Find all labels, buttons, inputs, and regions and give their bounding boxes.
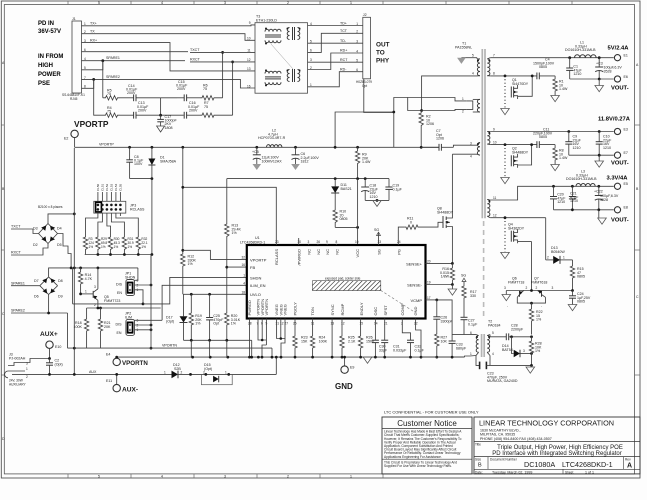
svg-text:24: 24 xyxy=(397,240,401,244)
wire bridge2 top rail xyxy=(49,268,138,277)
T3 winding lower-left xyxy=(265,71,281,84)
wire RXCT to bridge1 xyxy=(11,244,48,256)
svg-text:Title: Title xyxy=(475,442,481,446)
svg-text:RD-: RD- xyxy=(340,67,347,71)
svg-text:+C5: +C5 xyxy=(252,150,259,154)
wire T3.1 to J2.6 xyxy=(308,72,363,87)
capacitor C28 xyxy=(505,333,507,340)
U1 bottom pin labels rotated xyxy=(247,299,418,316)
svg-text:COMP: COMP xyxy=(400,303,405,315)
T3 winding upper-left xyxy=(265,29,281,42)
terminal E8 xyxy=(614,207,620,213)
svg-text:1: 1 xyxy=(462,97,464,101)
svg-text:GND: GND xyxy=(413,307,418,316)
wire T1 pin4 to sense chain xyxy=(452,153,477,155)
wire staircase to T1 primary xyxy=(335,98,422,148)
svg-text:E7: E7 xyxy=(624,151,628,155)
svg-text:-: - xyxy=(507,305,508,309)
inductor L1 xyxy=(575,55,597,58)
svg-text:TXCT: TXCT xyxy=(190,48,200,52)
svg-text:PSE: PSE xyxy=(38,81,50,87)
svg-text:4: 4 xyxy=(243,281,245,285)
resistor R31 xyxy=(122,236,126,255)
svg-text:RXCT: RXCT xyxy=(11,251,22,255)
wire bank bottom rail xyxy=(85,254,152,256)
capacitor C21 xyxy=(571,186,573,196)
svg-text:PJ-002AH: PJ-002AH xyxy=(9,356,26,360)
svg-text:DIS: DIS xyxy=(116,283,123,287)
capacitor C23 xyxy=(479,362,481,370)
wire T3.2 to J2.4 xyxy=(308,53,363,70)
resistor R28 xyxy=(529,337,533,366)
wire VCC vertical xyxy=(357,179,359,245)
capacitor C3 electrolytic xyxy=(598,58,600,67)
resistor R29 xyxy=(96,236,100,255)
svg-text:SG: SG xyxy=(377,249,382,255)
capacitor C26 xyxy=(426,299,437,301)
node C10 xyxy=(598,130,601,133)
ground below SENSE- xyxy=(451,285,453,290)
svg-text:HIGH: HIGH xyxy=(38,63,53,69)
wire bridge1 top to VPORTP vert xyxy=(48,214,74,224)
svg-text:18: 18 xyxy=(241,290,245,294)
svg-text:CL52: CL52 xyxy=(105,183,109,191)
svg-text:IN FROM: IN FROM xyxy=(38,54,63,60)
svg-text:E4: E4 xyxy=(106,353,110,357)
wire SYNC stub xyxy=(331,319,333,358)
svg-text:J2: J2 xyxy=(363,13,367,17)
node x183 on rail xyxy=(181,146,184,149)
svg-text:3: 3 xyxy=(94,285,96,289)
U1AREA xyxy=(117,236,465,391)
wire R12 to VPORTP pin xyxy=(183,250,247,259)
svg-text:1: 1 xyxy=(26,367,28,371)
wire x531 vertical xyxy=(531,242,533,291)
svg-text:SHDN: SHDN xyxy=(250,275,261,280)
svg-text:exposed pad, solder side: exposed pad, solder side xyxy=(325,277,361,281)
svg-text:15K: 15K xyxy=(301,339,308,343)
resistor R25 xyxy=(340,319,344,358)
diode D3 xyxy=(41,225,46,230)
capacitor C11 xyxy=(536,141,538,148)
T3J2 xyxy=(247,13,394,147)
node C6 xyxy=(294,146,297,149)
svg-text:1210: 1210 xyxy=(557,200,565,204)
terminal E9 GND xyxy=(344,357,346,366)
svg-text:19: 19 xyxy=(427,281,431,285)
wire R2 bottom to rail xyxy=(420,128,422,147)
T2AREA xyxy=(449,320,542,384)
svg-text:Applications Engineering For A: Applications Engineering For Assistance. xyxy=(384,455,442,459)
J1 pin net names xyxy=(90,22,97,43)
wire R11 to PG pin xyxy=(398,227,404,245)
svg-text:POWER: POWER xyxy=(38,72,61,78)
svg-text:AUX-: AUX- xyxy=(122,387,138,394)
svg-text:SMAJ58A: SMAJ58A xyxy=(160,159,177,163)
svg-text:1%: 1% xyxy=(101,245,106,249)
svg-text:10: 10 xyxy=(493,141,497,145)
capacitor C19 xyxy=(388,179,390,187)
svg-text:SFST: SFST xyxy=(383,305,388,316)
net stubs CL50-CL55 xyxy=(98,192,121,201)
svg-text:11.8V/0.27A: 11.8V/0.27A xyxy=(598,117,631,123)
capacitor C18 electrolytic xyxy=(364,179,366,187)
U1 right pin labels xyxy=(406,261,423,303)
svg-text:9: 9 xyxy=(493,128,495,132)
svg-text:DO1610H-331MLB: DO1610H-331MLB xyxy=(565,48,596,52)
svg-text:12: 12 xyxy=(493,214,497,218)
svg-text:2: 2 xyxy=(526,286,528,290)
svg-text:ETH1-230LD: ETH1-230LD xyxy=(256,19,277,23)
svg-text:NC: NC xyxy=(325,249,330,255)
J1AREA xyxy=(38,17,97,101)
wire to R13 xyxy=(226,179,228,222)
capacitor C30 xyxy=(374,319,376,341)
T3 internal diagonal xyxy=(271,44,293,69)
svg-text:OUT: OUT xyxy=(376,42,390,49)
svg-text:-: - xyxy=(541,305,542,309)
svg-text:SPARE2: SPARE2 xyxy=(106,75,120,79)
header JP3 RCLASS xyxy=(94,201,126,213)
svg-text:VPORTP: VPORTP xyxy=(99,143,114,147)
svg-text:33pF: 33pF xyxy=(379,348,388,352)
svg-text:1%: 1% xyxy=(141,245,146,249)
capacitor C16 xyxy=(183,112,185,119)
svg-text:SPARE1: SPARE1 xyxy=(11,282,25,286)
capacitor C9 xyxy=(568,132,570,142)
resistor R6 xyxy=(200,96,223,100)
svg-text:VNEG: VNEG xyxy=(283,304,288,315)
svg-text:1.4W: 1.4W xyxy=(559,87,568,91)
svg-text:75: 75 xyxy=(203,87,207,91)
wire GND pin stub xyxy=(416,319,421,358)
T1 primary winding upper xyxy=(477,59,480,76)
svg-text:(Opt): (Opt) xyxy=(204,367,212,371)
wire VPORTN y348 riser xyxy=(271,348,273,357)
U1 left pin numbers xyxy=(241,256,245,295)
svg-text:2: 2 xyxy=(462,110,464,114)
diode D6 xyxy=(43,289,48,294)
wire E2 down xyxy=(74,138,76,148)
svg-text:ILIM_EN: ILIM_EN xyxy=(250,283,266,288)
svg-text:CL51: CL51 xyxy=(101,183,105,191)
capacitor C31 xyxy=(384,319,386,341)
wire RXCT xyxy=(190,61,255,63)
svg-text:0805: 0805 xyxy=(577,275,585,279)
svg-text:1%: 1% xyxy=(89,245,94,249)
svg-text:2: 2 xyxy=(536,286,538,290)
diode D7 xyxy=(42,278,47,283)
wire pin10 node xyxy=(490,144,537,146)
svg-text:1%: 1% xyxy=(535,349,541,353)
T1 primary winding lower xyxy=(477,143,480,156)
svg-text:RJ45: RJ45 xyxy=(70,97,78,101)
svg-text:10K: 10K xyxy=(441,339,448,343)
svg-text:CL55: CL55 xyxy=(119,183,123,191)
svg-text:1: 1 xyxy=(563,256,565,260)
svg-text:1210: 1210 xyxy=(570,199,578,203)
svg-text:ENDLY: ENDLY xyxy=(359,302,364,315)
connector J1 xyxy=(72,21,82,93)
wire bridge2 bottom down xyxy=(48,295,50,314)
svg-text:1%: 1% xyxy=(114,245,119,249)
svg-text:D6: D6 xyxy=(34,295,39,299)
resistor R3 xyxy=(83,236,87,255)
wire TXCT to bridge1 xyxy=(11,229,39,234)
capacitor C2 xyxy=(49,359,51,363)
transistor Q5 xyxy=(92,291,94,298)
svg-text:13: 13 xyxy=(247,67,251,71)
svg-text:4: 4 xyxy=(470,155,472,159)
transformer T3 box xyxy=(255,23,308,94)
svg-text:1206: 1206 xyxy=(436,137,444,141)
bottom ticks xyxy=(68,474,383,478)
main VPORTN/GND rail xyxy=(117,356,465,358)
wire pin8 node xyxy=(490,75,537,77)
wire 3.3V return xyxy=(554,209,614,211)
wire AUX rail riser xyxy=(275,357,277,374)
diode D11 xyxy=(334,179,336,187)
wire pin4 upper primary xyxy=(422,76,477,111)
svg-text:15: 15 xyxy=(360,322,364,326)
svg-text:23: 23 xyxy=(275,240,279,244)
capacitor C1 xyxy=(569,58,571,68)
svg-text:D8: D8 xyxy=(58,279,63,283)
svg-text:UVLO: UVLO xyxy=(250,292,261,297)
svg-text:1.4W: 1.4W xyxy=(362,160,371,164)
svg-text:8: 8 xyxy=(493,72,495,76)
wire node tie y178.6 xyxy=(227,178,389,180)
svg-text:1 of 1: 1 of 1 xyxy=(585,471,594,475)
terminal E1 xyxy=(614,55,620,61)
svg-text:PWRGD: PWRGD xyxy=(247,300,252,315)
svg-text:100K: 100K xyxy=(74,325,83,329)
wire row1 right segment xyxy=(160,98,162,115)
diode D2 xyxy=(41,236,46,241)
svg-text:Sheet: Sheet xyxy=(565,470,573,474)
U1 bottom pin numbers xyxy=(248,322,418,326)
svg-text:TXCT: TXCT xyxy=(11,225,21,229)
terminal E6 xyxy=(614,76,620,82)
svg-text:1%: 1% xyxy=(128,245,133,249)
TITLEBLOCK xyxy=(382,410,640,475)
wire rail to RCLASS pin xyxy=(183,147,276,246)
T3 winding upper-right xyxy=(287,27,300,40)
ground Q6 collector xyxy=(505,291,507,295)
svg-text:RX+: RX+ xyxy=(90,38,97,42)
side ticks xyxy=(2,125,641,375)
svg-text:NC: NC xyxy=(307,249,312,255)
main title block xyxy=(474,417,640,474)
wires VPORTN pins xyxy=(258,319,266,341)
wire D1 bottom down to bank rail xyxy=(151,179,153,255)
svg-text:D5: D5 xyxy=(57,243,62,247)
svg-text:0: 0 xyxy=(410,220,412,224)
svg-text:3: 3 xyxy=(523,349,525,353)
capacitor C33 xyxy=(452,334,464,336)
svg-text:E2: E2 xyxy=(64,137,68,141)
svg-text:Supplied For Use With Linear T: Supplied For Use With Linear Technology … xyxy=(384,464,452,468)
wire VCMP to C33 node xyxy=(437,300,452,335)
wire TXCT xyxy=(190,51,255,53)
svg-text:1: 1 xyxy=(350,475,352,479)
diode D4 xyxy=(50,226,55,231)
resistor R9 xyxy=(355,147,359,167)
svg-text:AUXILIARY: AUXILIARY xyxy=(9,383,26,387)
wire E10 down xyxy=(49,349,51,359)
svg-text:NC: NC xyxy=(334,249,339,255)
wire TX J1.2 to T3.10 xyxy=(82,34,256,41)
rail extension to C27/T2 xyxy=(421,356,465,358)
svg-text:4: 4 xyxy=(161,1,163,5)
terminal E7 xyxy=(614,152,620,158)
ground C17 xyxy=(157,126,165,132)
svg-text:VPORTP: VPORTP xyxy=(250,258,267,263)
resistor R24 xyxy=(310,319,314,358)
resistor R12 xyxy=(181,250,185,294)
T1 core xyxy=(481,49,483,218)
svg-text:LTC4268DKD-1: LTC4268DKD-1 xyxy=(240,241,265,245)
svg-text:4: 4 xyxy=(492,352,494,356)
svg-text:RCLASS: RCLASS xyxy=(130,207,145,211)
svg-text:1%: 1% xyxy=(231,322,237,326)
svg-text:5: 5 xyxy=(98,1,100,5)
svg-text:SENSE-: SENSE- xyxy=(407,283,423,288)
capacitor C4 xyxy=(536,73,538,80)
svg-text:RCLASS: RCLASS xyxy=(274,249,279,265)
svg-text:3528: 3528 xyxy=(604,69,612,73)
svg-text:4: 4 xyxy=(161,475,163,479)
RCLASSAREA xyxy=(83,146,276,294)
wire T3.4 to J2.1 xyxy=(308,25,363,27)
svg-text:20K: 20K xyxy=(104,325,111,329)
ground C5 xyxy=(253,164,262,170)
svg-text:PHONE (408) 954-8400 FAX (408: PHONE (408) 954-8400 FAX (408) 434-0507 xyxy=(480,437,552,441)
wire R7 up to RXCT xyxy=(232,62,234,115)
svg-text:RD+: RD+ xyxy=(340,49,347,53)
diode D17 xyxy=(180,316,188,322)
svg-text:32: 32 xyxy=(241,256,245,260)
svg-text:9: 9 xyxy=(249,21,251,25)
svg-text:2: 2 xyxy=(181,371,183,375)
svg-text:E3: E3 xyxy=(624,127,628,131)
5V secondary winding xyxy=(487,59,490,76)
resistor R2 xyxy=(419,111,423,129)
svg-text:1: 1 xyxy=(164,371,166,375)
ground C6 xyxy=(291,164,300,170)
svg-text:200V: 200V xyxy=(177,87,186,91)
wire C8/D1 bottom tie xyxy=(130,178,152,180)
svg-text:1: 1 xyxy=(243,274,245,278)
svg-text:+C22: +C22 xyxy=(594,190,603,194)
terminal E2 xyxy=(71,130,78,137)
ground T2 return xyxy=(530,364,533,367)
svg-text:RCMP: RCMP xyxy=(340,303,345,315)
svg-text:D9: D9 xyxy=(58,295,63,299)
capacitor C22 electrolytic xyxy=(598,186,600,195)
T3 winding lower-right xyxy=(287,69,300,82)
svg-text:33: 33 xyxy=(378,240,382,244)
wire R6 up to TXCT xyxy=(222,52,224,97)
svg-text:D2: D2 xyxy=(33,243,38,247)
svg-text:TON: TON xyxy=(310,307,315,315)
resistor R4 xyxy=(100,113,120,117)
svg-text:RXCT: RXCT xyxy=(190,58,201,62)
wire SHDN riser to U1 xyxy=(150,255,152,286)
svg-text:CL53: CL53 xyxy=(110,183,114,191)
svg-text:1210: 1210 xyxy=(370,195,378,199)
wire 11.8V return xyxy=(569,154,614,156)
base/top wire xyxy=(506,290,572,292)
svg-text:75: 75 xyxy=(204,105,208,109)
svg-text:10: 10 xyxy=(247,37,251,41)
svg-text:TD+: TD+ xyxy=(340,21,347,25)
svg-text:DIS: DIS xyxy=(116,323,123,327)
node C1 xyxy=(568,56,571,59)
capacitor C20 xyxy=(553,186,555,196)
svg-text:PGDLY: PGDLY xyxy=(293,302,298,316)
wire spare1 drop to row1 xyxy=(102,61,104,98)
wire bridge1 right staircase xyxy=(58,234,72,268)
svg-text:0.1µF: 0.1µF xyxy=(468,322,478,326)
resistor R20 xyxy=(225,267,229,340)
svg-text:PA0184: PA0184 xyxy=(488,323,501,327)
wires JP1 pins xyxy=(135,268,138,280)
capacitor C25 xyxy=(209,294,211,317)
resistor R1 xyxy=(553,76,557,96)
svg-text:2: 2 xyxy=(287,475,289,479)
RCNET xyxy=(82,25,256,132)
T1 aux winding xyxy=(477,99,480,112)
svg-text:Tuesday, March 02, 1999: Tuesday, March 02, 1999 xyxy=(492,471,532,475)
node C20 xyxy=(552,185,555,188)
svg-text:SG: SG xyxy=(374,228,379,232)
wire spare2 drop to row2 xyxy=(94,79,100,115)
svg-text:0805: 0805 xyxy=(539,65,547,69)
svg-text:SHDN: SHDN xyxy=(125,275,136,279)
svg-text:4: 4 xyxy=(472,72,474,76)
wire 3.3V rail xyxy=(490,186,613,200)
svg-text:SG: SG xyxy=(461,274,466,278)
svg-text:1%: 1% xyxy=(195,322,201,326)
svg-text:17: 17 xyxy=(427,296,431,300)
svg-text:5: 5 xyxy=(98,475,100,479)
svg-text:PD IN: PD IN xyxy=(38,21,54,27)
svg-text:LTC CONFIDENTIAL - FOR CUSTOME: LTC CONFIDENTIAL - FOR CUSTOMER USE ONLY xyxy=(384,410,479,415)
ground R8 xyxy=(551,165,560,171)
svg-text:75: 75 xyxy=(107,92,111,96)
T1 aux bracket pins 1,2 xyxy=(467,101,473,110)
svg-text:HCP0703-4R7-R: HCP0703-4R7-R xyxy=(258,136,286,140)
svg-text:0.1µF: 0.1µF xyxy=(393,187,403,191)
svg-text:30: 30 xyxy=(298,240,302,244)
wire D13 feed xyxy=(545,218,547,260)
svg-text:1.4W: 1.4W xyxy=(559,156,568,160)
svg-text:FB: FB xyxy=(250,265,255,270)
extra rail dots xyxy=(191,356,194,359)
svg-text:Size: Size xyxy=(475,457,481,461)
U1 top pin stubs xyxy=(277,238,337,245)
wire E2 vertical down xyxy=(73,148,75,374)
resistor R32 xyxy=(136,236,140,255)
capacitor C14 xyxy=(120,97,134,99)
svg-text:3: 3 xyxy=(552,286,554,290)
top ticks xyxy=(68,1,572,5)
capacitor C10 xyxy=(598,132,600,142)
BOTTOMLEFT xyxy=(5,148,278,394)
wire T3.6 to J2.2 TCT xyxy=(308,33,363,52)
svg-text:E5: E5 xyxy=(624,182,628,186)
